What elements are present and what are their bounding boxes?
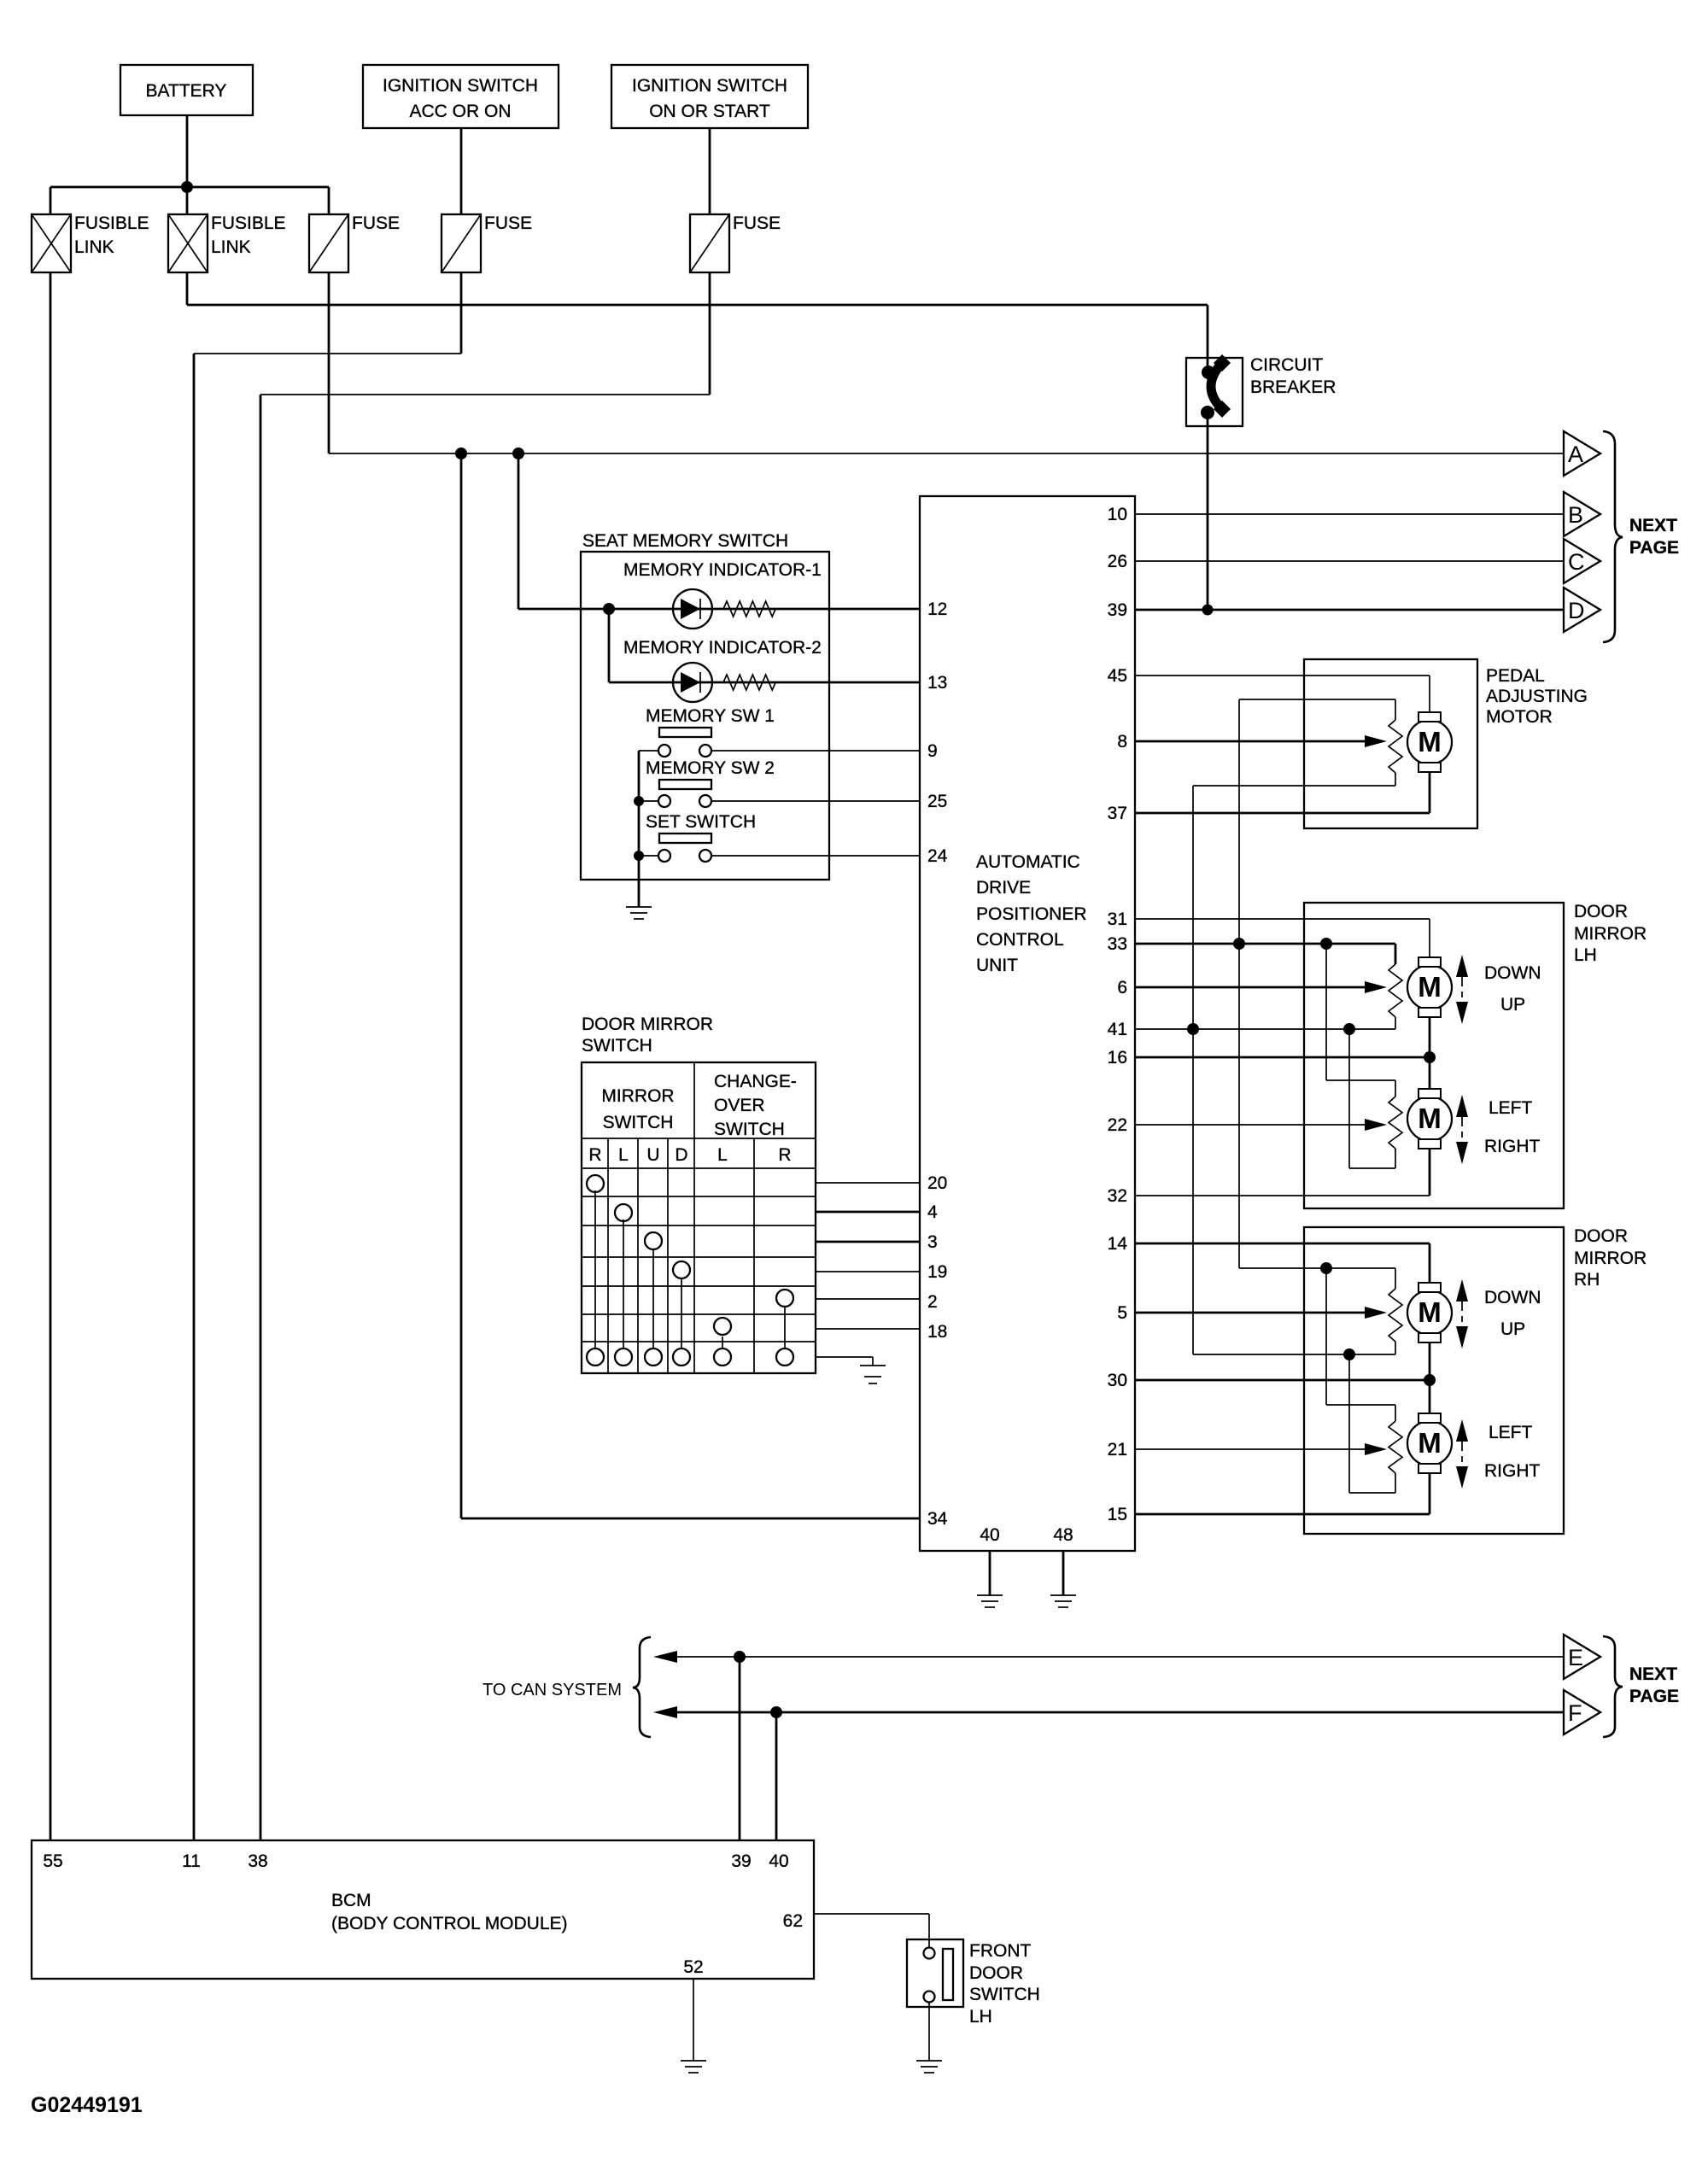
svg-text:10: 10: [1108, 505, 1127, 524]
wire pin 4 line: [816, 1211, 920, 1214]
wire RH sensor top feed: [1239, 1268, 1395, 1289]
node 33 to sensor bus: [1233, 938, 1245, 950]
wire pin 22 line with wiper arrow: [1135, 1119, 1387, 1131]
wire pin 31 line: [1135, 919, 1430, 957]
wire fuse2 jog left: [194, 353, 461, 354]
svg-text:DOOR: DOOR: [969, 1963, 1023, 1983]
node 41 to sensor bus: [1187, 1023, 1199, 1035]
table header bottom rule: [582, 1138, 816, 1139]
svg-text:18: 18: [927, 1322, 947, 1342]
svg-text:LINK: LINK: [211, 237, 251, 257]
connector arrow A next page: [1564, 431, 1600, 476]
wire LH LR pot bottom feed: [1349, 1029, 1395, 1168]
svg-text:FUSIBLE: FUSIBLE: [74, 214, 149, 233]
svg-text:25: 25: [927, 792, 947, 811]
switch contact changeover R pair: [776, 1290, 793, 1366]
wire FL1 down to BCM pin 55: [50, 272, 52, 1840]
svg-text:15: 15: [1108, 1505, 1127, 1524]
motor M1 pedal adjusting: [1407, 712, 1452, 772]
svg-text:38: 38: [248, 1851, 267, 1871]
svg-text:LH: LH: [969, 2007, 992, 2027]
svg-text:40: 40: [980, 1525, 999, 1545]
wire RH sensor bottom feed: [1193, 1342, 1395, 1354]
wire pin 45 line: [1135, 676, 1430, 713]
wire ignition ACC to fuse 2: [460, 128, 463, 214]
seat memory switch assembly: [581, 531, 829, 880]
wire pin 6 line with wiper arrow: [1135, 981, 1387, 993]
svg-text:FUSIBLE: FUSIBLE: [211, 214, 286, 233]
svg-text:M: M: [1418, 726, 1442, 758]
svg-text:MEMORY SW 2: MEMORY SW 2: [646, 758, 775, 778]
motor M4 mirror RH up-down: [1407, 1283, 1452, 1342]
wire LH LR pot top feed: [1326, 944, 1395, 1097]
wire pin 24 line: [711, 855, 920, 857]
potentiometer LH left-right sensor: [1389, 1097, 1402, 1149]
svg-text:13: 13: [927, 673, 947, 693]
svg-text:ACC OR ON: ACC OR ON: [409, 102, 511, 121]
svg-text:31: 31: [1108, 910, 1127, 929]
label NEXT PAGE bottom: [1629, 1664, 1679, 1706]
svg-text:BCM: BCM: [331, 1891, 371, 1910]
switch SW2 contacts: [634, 795, 711, 807]
arrow left-right RH: [1456, 1419, 1468, 1489]
svg-text:LEFT: LEFT: [1489, 1423, 1533, 1442]
svg-text:LEFT: LEFT: [1489, 1098, 1533, 1118]
svg-text:D: D: [1568, 598, 1585, 623]
svg-text:M: M: [1418, 1296, 1442, 1328]
svg-text:PEDAL: PEDAL: [1486, 666, 1545, 686]
label NEXT PAGE top: [1629, 516, 1679, 558]
svg-text:RIGHT: RIGHT: [1484, 1461, 1541, 1481]
wire switch common to ground: [638, 880, 640, 907]
svg-text:CHANGE-: CHANGE-: [714, 1072, 797, 1091]
svg-text:45: 45: [1108, 666, 1127, 686]
svg-text:30: 30: [1108, 1371, 1127, 1390]
wire fuse1 down: [328, 272, 330, 453]
wire junction down to indicator-2: [608, 609, 611, 682]
svg-text:62: 62: [783, 1911, 803, 1931]
motor M5 mirror RH left-right: [1407, 1413, 1452, 1473]
svg-text:32: 32: [1108, 1186, 1127, 1206]
door mirror RH assembly: [1304, 1226, 1647, 1534]
ground G1 control unit pin 40: [977, 1595, 1003, 1607]
front door switch LH: [907, 1938, 1040, 2027]
ground G2 control unit pin 48: [1050, 1595, 1076, 1607]
node battery bus junction: [181, 181, 193, 193]
svg-text:2: 2: [927, 1292, 938, 1312]
svg-text:MIRROR: MIRROR: [1574, 924, 1647, 944]
svg-text:SWITCH: SWITCH: [582, 1036, 652, 1056]
ground G5 front door switch: [916, 2061, 942, 2073]
control unit U1 automatic drive positioner: [920, 496, 1135, 1551]
label LEFT RIGHT: [1484, 1098, 1541, 1156]
wire CAN high net E: [653, 1651, 1564, 1663]
svg-text:26: 26: [1108, 552, 1127, 571]
wire pin 33 line: [1135, 944, 1395, 964]
node on net A feeding memory indicators: [512, 447, 524, 459]
brace next page bottom: [1603, 1636, 1623, 1737]
svg-text:RH: RH: [1574, 1270, 1600, 1290]
svg-text:FUSE: FUSE: [484, 214, 532, 233]
svg-text:22: 22: [1108, 1115, 1127, 1135]
svg-text:A: A: [1568, 442, 1583, 467]
label mirror switch section: [601, 1086, 674, 1132]
svg-text:SWITCH: SWITCH: [969, 1985, 1040, 2004]
wire pin 62 to front door switch: [814, 1914, 929, 1938]
wire fuse3 down: [709, 272, 711, 395]
svg-text:IGNITION SWITCH: IGNITION SWITCH: [383, 76, 538, 96]
potentiometer pedal position sensor: [1389, 699, 1402, 786]
wire pin 40 ground stub: [989, 1551, 991, 1595]
svg-text:R: R: [588, 1145, 601, 1165]
svg-text:TO CAN SYSTEM: TO CAN SYSTEM: [483, 1681, 622, 1699]
svg-text:LH: LH: [1574, 945, 1597, 965]
pedal adjusting motor assembly: [1304, 659, 1588, 828]
resistor R1: [723, 601, 775, 617]
svg-text:MOTOR: MOTOR: [1486, 707, 1553, 727]
node E to BCM pin 39: [734, 1651, 746, 1663]
svg-text:SEAT MEMORY SWITCH: SEAT MEMORY SWITCH: [582, 531, 788, 551]
node pin 30 junction: [1424, 1374, 1436, 1386]
wire pin 34 horizontal: [461, 1518, 920, 1520]
wire pin 2 line: [816, 1298, 920, 1300]
wire pin 5 line with wiper arrow: [1135, 1307, 1387, 1319]
wire pin 39 to arrow D: [1135, 609, 1564, 611]
arrow up-down LH: [1456, 955, 1468, 1024]
node on net A feeding pin 34: [455, 447, 467, 459]
arrow left-right LH: [1456, 1095, 1468, 1164]
wire pin 13 line: [609, 681, 920, 684]
svg-text:R: R: [778, 1145, 791, 1165]
door mirror switch assembly: [582, 1015, 816, 1373]
wire FL2 down: [186, 272, 189, 305]
node RH bottom feed to LR pot: [1343, 1348, 1355, 1360]
wire pin 3 line: [816, 1241, 920, 1243]
wire E down to BCM: [739, 1657, 741, 1840]
wire pin 52 to ground: [693, 1979, 694, 2061]
svg-text:DOWN: DOWN: [1484, 963, 1541, 983]
svg-text:UNIT: UNIT: [976, 956, 1018, 975]
svg-text:39: 39: [731, 1851, 751, 1871]
table letter row rule: [582, 1167, 816, 1169]
svg-text:34: 34: [927, 1509, 948, 1529]
svg-text:DRIVE: DRIVE: [976, 878, 1031, 898]
wire pin 37 line: [1135, 772, 1430, 813]
svg-text:SWITCH: SWITCH: [603, 1113, 674, 1132]
potentiometer RH up-down sensor: [1389, 1289, 1402, 1342]
svg-text:20: 20: [927, 1173, 947, 1193]
svg-text:M: M: [1418, 1103, 1442, 1134]
svg-text:POSITIONER: POSITIONER: [976, 904, 1087, 924]
node 41 to LR pot bottom: [1343, 1023, 1355, 1035]
table header divider: [693, 1062, 695, 1373]
circuit breaker CB1: [1186, 354, 1336, 426]
switch contact changeover L pair: [714, 1318, 731, 1366]
brace next page top: [1603, 431, 1623, 642]
fuse F2: [442, 214, 532, 272]
svg-text:MEMORY INDICATOR-1: MEMORY INDICATOR-1: [623, 560, 822, 580]
label DOWN UP RH: [1484, 1288, 1541, 1339]
svg-text:8: 8: [1117, 732, 1127, 752]
svg-text:UP: UP: [1500, 995, 1525, 1015]
potentiometer LH up-down sensor: [1389, 964, 1402, 1017]
switch SW1 contacts: [639, 745, 711, 757]
wire fuse2 down: [460, 272, 463, 354]
wire pot top link: [1239, 699, 1395, 700]
svg-text:G02449191: G02449191: [31, 2093, 143, 2117]
svg-text:E: E: [1568, 1645, 1583, 1670]
svg-text:16: 16: [1108, 1048, 1127, 1068]
svg-text:PAGE: PAGE: [1629, 538, 1679, 558]
switch contact R upper and lower: [587, 1175, 604, 1366]
switch contact U upper and lower: [645, 1232, 662, 1366]
wire sensor bus right: [1192, 786, 1194, 1354]
node F to BCM pin 40: [770, 1706, 782, 1718]
wire net A down to memory indicator feed: [518, 453, 520, 609]
svg-text:48: 48: [1053, 1525, 1073, 1545]
ground G6 BCM pin 52: [681, 2061, 706, 2073]
svg-text:LINK: LINK: [74, 237, 114, 257]
arrow up-down RH: [1456, 1279, 1468, 1348]
wire sensor bus left: [1238, 699, 1240, 1268]
svg-text:NEXT: NEXT: [1629, 1664, 1677, 1684]
connector arrow D next page: [1564, 588, 1600, 632]
svg-text:D: D: [675, 1145, 687, 1165]
svg-text:L: L: [618, 1145, 629, 1165]
BCM body control module: [32, 1840, 814, 1979]
wire front door switch to ground: [928, 2002, 930, 2061]
resistor R2: [723, 675, 775, 690]
svg-text:(BODY CONTROL MODULE): (BODY CONTROL MODULE): [331, 1914, 568, 1933]
fusible link FL2: [168, 214, 286, 272]
svg-text:DOWN: DOWN: [1484, 1288, 1541, 1307]
svg-text:DOOR MIRROR: DOOR MIRROR: [582, 1015, 713, 1034]
connector arrow F next page: [1564, 1690, 1600, 1734]
fuse F1: [309, 214, 400, 272]
svg-text:12: 12: [927, 600, 947, 619]
svg-text:33: 33: [1108, 934, 1127, 954]
svg-text:MEMORY SW 1: MEMORY SW 1: [646, 706, 775, 726]
svg-text:NEXT: NEXT: [1629, 516, 1677, 535]
potentiometer RH left-right sensor: [1389, 1421, 1402, 1473]
wire pin 9 line: [711, 750, 920, 752]
wire pin 48 ground stub: [1062, 1551, 1065, 1595]
motor M2 mirror LH up-down: [1407, 957, 1452, 1017]
switch SW2 button bar: [659, 780, 711, 789]
wire net A down to pin 34: [460, 453, 463, 1518]
svg-text:ADJUSTING: ADJUSTING: [1486, 687, 1588, 706]
svg-text:21: 21: [1108, 1440, 1127, 1459]
connector arrow B next page: [1564, 492, 1600, 536]
svg-text:FUSE: FUSE: [733, 214, 781, 233]
battery B1: [120, 65, 253, 115]
wire pin 15 line: [1135, 1473, 1430, 1514]
svg-text:RIGHT: RIGHT: [1484, 1137, 1541, 1156]
wire pin 32 line: [1135, 1149, 1430, 1196]
wire pin 41 line: [1135, 1017, 1395, 1029]
svg-text:F: F: [1568, 1700, 1582, 1726]
LED memory indicator-1: [673, 589, 712, 629]
ignition switch ON OR START: [611, 65, 808, 128]
node RH top feed to LR pot: [1320, 1262, 1332, 1274]
svg-text:BREAKER: BREAKER: [1250, 377, 1336, 397]
svg-text:BATTERY: BATTERY: [146, 81, 227, 101]
motor M3 mirror LH left-right: [1407, 1089, 1452, 1149]
LED memory indicator-2: [673, 663, 712, 702]
svg-text:DOOR: DOOR: [1574, 1226, 1628, 1246]
svg-text:FRONT: FRONT: [969, 1941, 1031, 1961]
wire down to BCM pin 38: [260, 395, 262, 1840]
svg-text:3: 3: [927, 1232, 938, 1252]
wire F down to BCM: [775, 1712, 778, 1840]
node pin 16 junction: [1424, 1051, 1436, 1063]
svg-text:41: 41: [1108, 1020, 1127, 1039]
ground G3 seat memory switch: [626, 907, 652, 919]
svg-text:11: 11: [182, 1851, 201, 1871]
fusible link FL1: [32, 214, 149, 272]
svg-text:DOOR: DOOR: [1574, 902, 1628, 921]
switch SET button bar: [659, 834, 711, 843]
wire CAN low net F: [653, 1706, 1564, 1718]
wire pin 20 line: [816, 1182, 920, 1184]
wire battery to junction: [186, 115, 189, 187]
svg-text:M: M: [1418, 1427, 1442, 1459]
wire motor link pin 30: [1135, 1342, 1430, 1418]
connector arrow C next page: [1564, 539, 1600, 583]
fuse F3: [690, 214, 781, 272]
svg-text:IGNITION SWITCH: IGNITION SWITCH: [632, 76, 787, 96]
wire pin 19 line: [816, 1271, 920, 1272]
wire common vertical: [638, 751, 640, 880]
svg-text:SWITCH: SWITCH: [714, 1120, 785, 1139]
wire pot bottom link: [1193, 785, 1395, 787]
wire pin 10 to arrow B: [1135, 513, 1564, 515]
door mirror LH assembly: [1304, 902, 1647, 1208]
svg-text:9: 9: [927, 741, 938, 761]
wire fuse3 jog left: [260, 394, 710, 395]
switch SET contacts: [634, 850, 711, 862]
wire pin 14 line: [1135, 1243, 1430, 1283]
svg-text:52: 52: [683, 1957, 703, 1977]
wire pin 12 line: [518, 608, 920, 611]
node 33 to LR pot: [1320, 938, 1332, 950]
svg-text:AUTOMATIC: AUTOMATIC: [976, 852, 1080, 872]
svg-text:5: 5: [1117, 1303, 1127, 1323]
wire pin 25 line: [711, 800, 920, 802]
wire bus to fusible link 2: [186, 187, 189, 214]
svg-text:39: 39: [1108, 600, 1127, 620]
svg-text:4: 4: [927, 1202, 938, 1222]
label change-over switch section: [714, 1072, 797, 1139]
switch SW1 button bar: [659, 728, 711, 737]
switch contact L upper and lower: [615, 1204, 632, 1366]
svg-text:FUSE: FUSE: [352, 214, 400, 233]
wire breaker drop top: [1207, 305, 1209, 371]
wire pin 21 line with wiper arrow: [1135, 1443, 1387, 1455]
wire battery bus horizontal: [50, 186, 329, 189]
svg-text:U: U: [646, 1145, 659, 1165]
svg-text:MIRROR: MIRROR: [601, 1086, 674, 1106]
svg-text:24: 24: [927, 846, 948, 866]
label DOWN UP: [1484, 963, 1541, 1015]
svg-text:CONTROL: CONTROL: [976, 930, 1064, 950]
wire FL2 bus to circuit breaker: [187, 304, 1208, 307]
svg-text:CIRCUIT: CIRCUIT: [1250, 355, 1323, 375]
svg-text:14: 14: [1108, 1234, 1128, 1254]
svg-text:ON OR START: ON OR START: [649, 102, 770, 121]
svg-text:6: 6: [1117, 978, 1127, 997]
svg-text:SET SWITCH: SET SWITCH: [646, 812, 756, 832]
svg-text:55: 55: [43, 1851, 62, 1871]
wire breaker to net D: [1207, 410, 1209, 610]
wire down to BCM pin 11: [193, 354, 196, 1840]
wire mirror switch ground run: [816, 1357, 873, 1366]
svg-text:MEMORY INDICATOR-2: MEMORY INDICATOR-2: [623, 638, 822, 658]
ground G4 door mirror switch: [860, 1366, 886, 1383]
svg-text:OVER: OVER: [714, 1096, 765, 1115]
svg-text:UP: UP: [1500, 1319, 1525, 1339]
svg-text:37: 37: [1108, 804, 1127, 823]
ignition switch ACC OR ON: [363, 65, 559, 128]
svg-text:PAGE: PAGE: [1629, 1687, 1679, 1706]
table row rules: [582, 1196, 816, 1342]
wire bus to fuse 1: [328, 187, 330, 214]
wire ignition START to fuse 3: [709, 128, 711, 214]
wire motor link pin 16: [1135, 1017, 1430, 1093]
node indicator feed junction: [603, 603, 615, 615]
wire net A horizontal: [329, 453, 1564, 454]
connector arrow E next page: [1564, 1635, 1600, 1679]
svg-text:M: M: [1418, 971, 1442, 1003]
switch contact D upper and lower: [673, 1261, 690, 1366]
wire pin 18 line: [816, 1328, 920, 1330]
svg-text:B: B: [1568, 502, 1583, 528]
label LEFT RIGHT RH: [1484, 1423, 1541, 1481]
svg-text:C: C: [1568, 549, 1585, 575]
wire RH LR pot top feed: [1326, 1268, 1395, 1421]
table column rules: [608, 1138, 754, 1373]
svg-text:L: L: [717, 1145, 728, 1165]
wire pin 8 line with wiper arrow: [1135, 735, 1387, 747]
brace CAN left: [633, 1637, 651, 1737]
svg-text:19: 19: [927, 1262, 947, 1282]
wire RH LR pot bottom feed: [1349, 1354, 1395, 1493]
svg-text:40: 40: [769, 1851, 788, 1871]
node breaker on net D: [1202, 605, 1214, 616]
wire bus to fusible link 1: [50, 187, 52, 214]
wire pin 26 to arrow C: [1135, 560, 1564, 562]
svg-text:MIRROR: MIRROR: [1574, 1249, 1647, 1268]
